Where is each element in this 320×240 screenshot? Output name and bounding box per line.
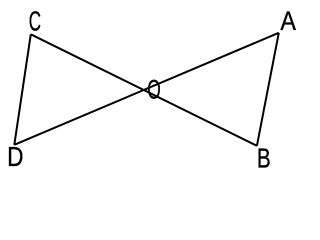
wire segment C-B (diagonal through O) bbox=[31, 34, 257, 146]
svg-text:O: O bbox=[147, 74, 161, 105]
wire segment A-B (right side of right triangle) bbox=[257, 33, 279, 146]
svg-text:C: C bbox=[29, 5, 41, 36]
wire segment C-D (left side of left triangle) bbox=[14, 34, 31, 145]
wire segment D-A (diagonal through O) bbox=[14, 33, 279, 145]
svg-text:B: B bbox=[257, 143, 271, 172]
svg-text:D: D bbox=[7, 141, 23, 172]
svg-text:A: A bbox=[280, 5, 296, 36]
